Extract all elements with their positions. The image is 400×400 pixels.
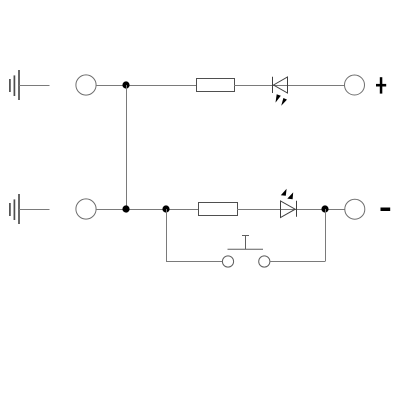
LED D2 (bottom, pointing right) — [281, 201, 297, 218]
wire button right contact to right branch — [270, 261, 325, 263]
wire branch down to button (left side) — [166, 209, 168, 262]
pushbutton S1 right contact — [259, 256, 270, 267]
resistor R2 (bottom) — [199, 203, 238, 216]
terminal circle (top left) — [76, 75, 96, 95]
minus label — [381, 208, 391, 212]
pushbutton S1 actuator — [228, 236, 264, 250]
terminal circle (bottom right) — [345, 199, 365, 219]
ground (top rail) — [10, 70, 19, 100]
plus label — [376, 77, 386, 93]
wire resistor to terminal (bottom) — [237, 209, 345, 211]
wire ground to terminal gap (bottom) — [19, 209, 50, 211]
node junction dot (bottom rail, left) — [122, 205, 129, 212]
node junction dot (top rail) — [122, 81, 129, 88]
wire terminal to resistor (bottom) — [96, 209, 199, 211]
LED D2 emission arrows — [281, 189, 293, 200]
LED D1 (top, pointing left) — [273, 77, 288, 93]
wire branch down to button (right side) — [325, 209, 327, 262]
node junction dot (bottom rail, button branch) — [162, 205, 169, 212]
wire terminal to resistor (top) — [96, 85, 197, 87]
resistor R1 (top) — [197, 79, 235, 92]
LED D1 emission arrows — [276, 94, 288, 106]
wire to button left contact — [166, 261, 222, 263]
ground (bottom rail) — [10, 194, 19, 224]
terminal circle (bottom left) — [76, 199, 96, 219]
terminal circle (top right) — [345, 75, 365, 95]
wire ground to terminal gap (top) — [19, 85, 50, 87]
node junction dot (bottom rail, right) — [321, 205, 328, 212]
wire resistor to terminal (top) — [234, 85, 344, 87]
wire vertical between rails — [126, 85, 128, 209]
pushbutton S1 left contact — [222, 256, 233, 267]
